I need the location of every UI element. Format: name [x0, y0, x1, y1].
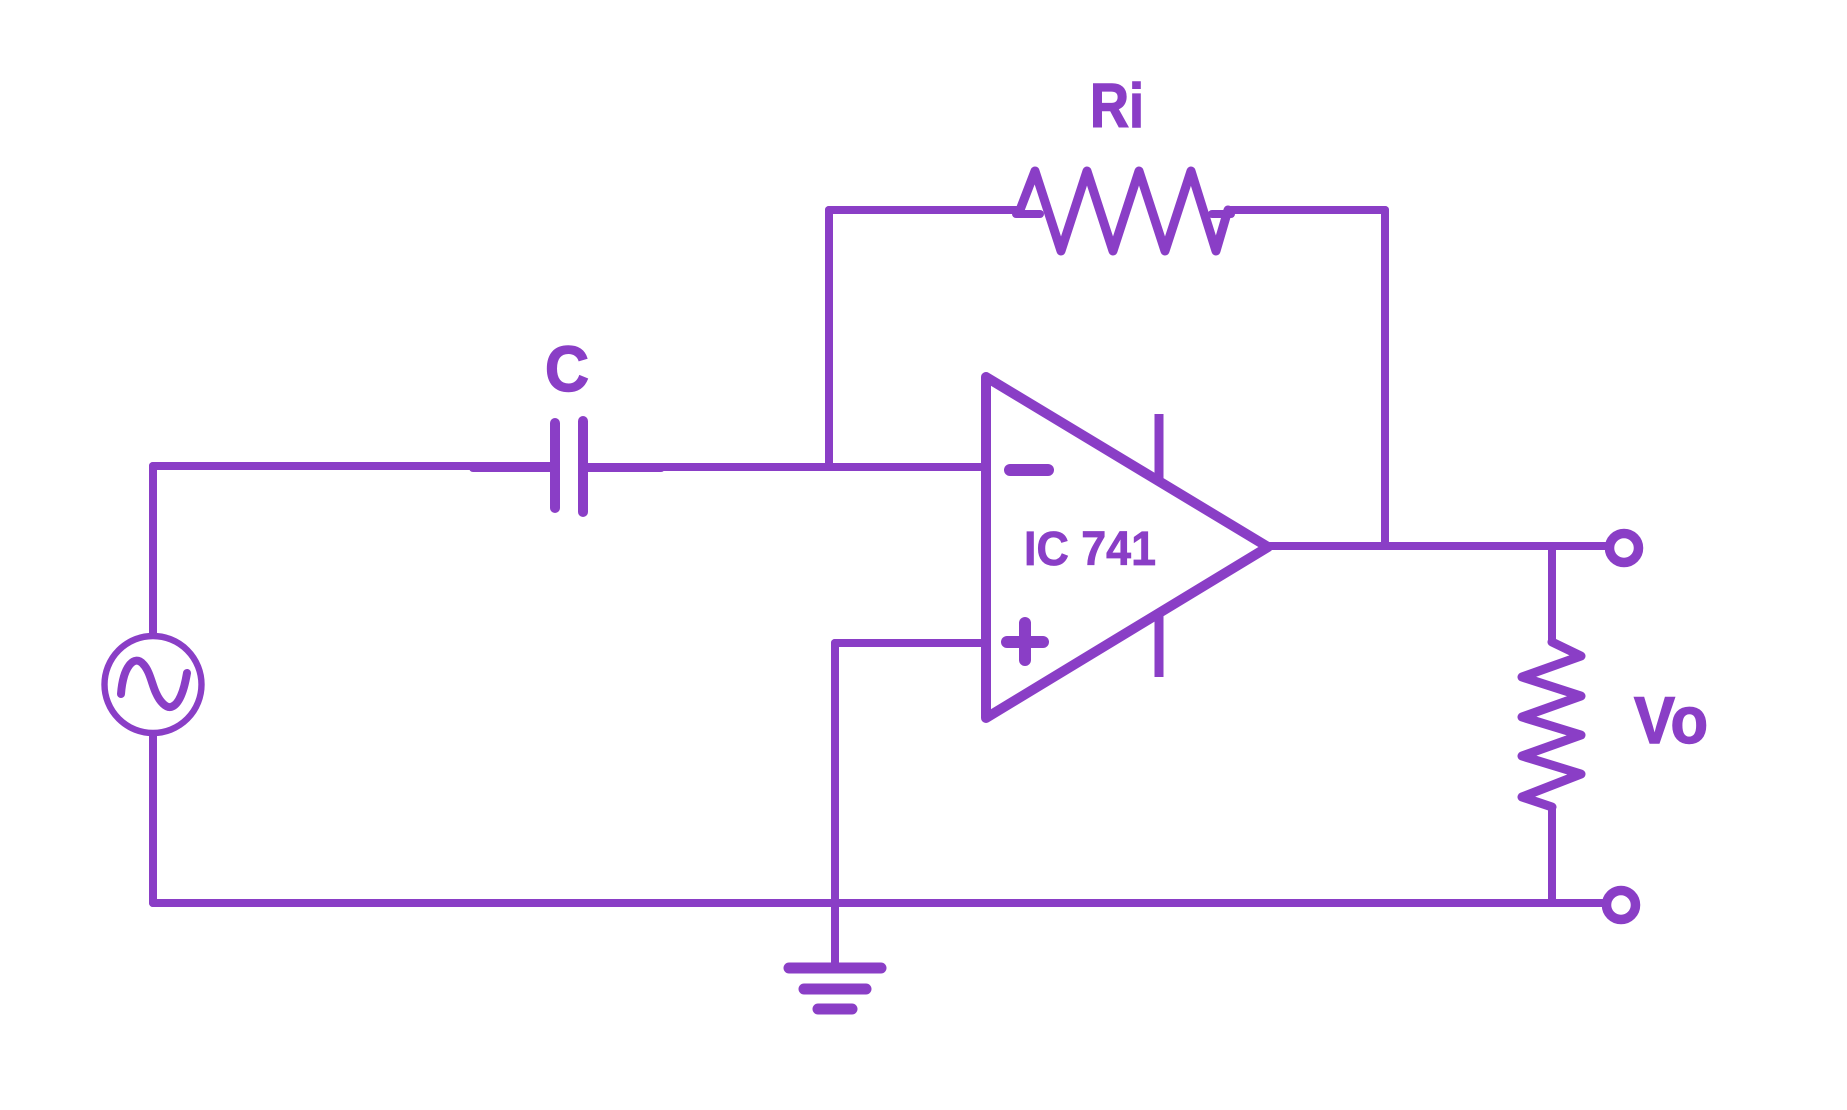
- output terminal top: [1610, 534, 1639, 563]
- wire op-amp output: [1268, 542, 1610, 550]
- output terminal bottom: [1607, 891, 1636, 920]
- resistor Vo (load): [1522, 642, 1581, 807]
- wire feedback left vertical: [825, 210, 833, 466]
- svg-text:C: C: [545, 333, 589, 405]
- op-amp power pin bottom: [1155, 613, 1164, 677]
- wire top-left horizontal (source to capacitor): [153, 462, 554, 470]
- capacitor C: [555, 421, 583, 512]
- wire non-inverting input: [835, 639, 985, 647]
- ground: [789, 968, 881, 1009]
- wire left vertical (source branch): [149, 466, 157, 903]
- op-amp inverting input minus symbol: [1010, 464, 1048, 476]
- wire stub left of capacitor (sketch overlap): [473, 464, 552, 472]
- wire top horizontal left of Ri: [829, 206, 1020, 214]
- wire Vo branch bottom: [1548, 807, 1556, 903]
- svg-text:Vo: Vo: [1634, 683, 1708, 757]
- svg-text:Ri: Ri: [1090, 72, 1144, 141]
- wire capacitor to inverting input: [583, 463, 985, 471]
- op-amp power pin top: [1155, 414, 1164, 479]
- wire stub right of Ri (sketch overlap): [1212, 210, 1231, 218]
- op-amp non-inverting input plus symbol: [1007, 623, 1043, 660]
- AC source VS: [105, 636, 202, 733]
- wire stub left of Ri (sketch overlap): [1016, 210, 1040, 218]
- wire bottom horizontal: [153, 899, 1607, 907]
- op-amp U1 triangle: [986, 377, 1268, 718]
- resistor Ri: [1020, 171, 1228, 251]
- wire ground vertical: [831, 643, 839, 963]
- wire top horizontal right of Ri: [1228, 206, 1385, 214]
- wire stub right of capacitor (sketch overlap): [586, 464, 661, 472]
- wire feedback right vertical: [1381, 210, 1389, 546]
- wire Vo branch top: [1548, 547, 1556, 642]
- svg-text:IC 741: IC 741: [1024, 523, 1156, 576]
